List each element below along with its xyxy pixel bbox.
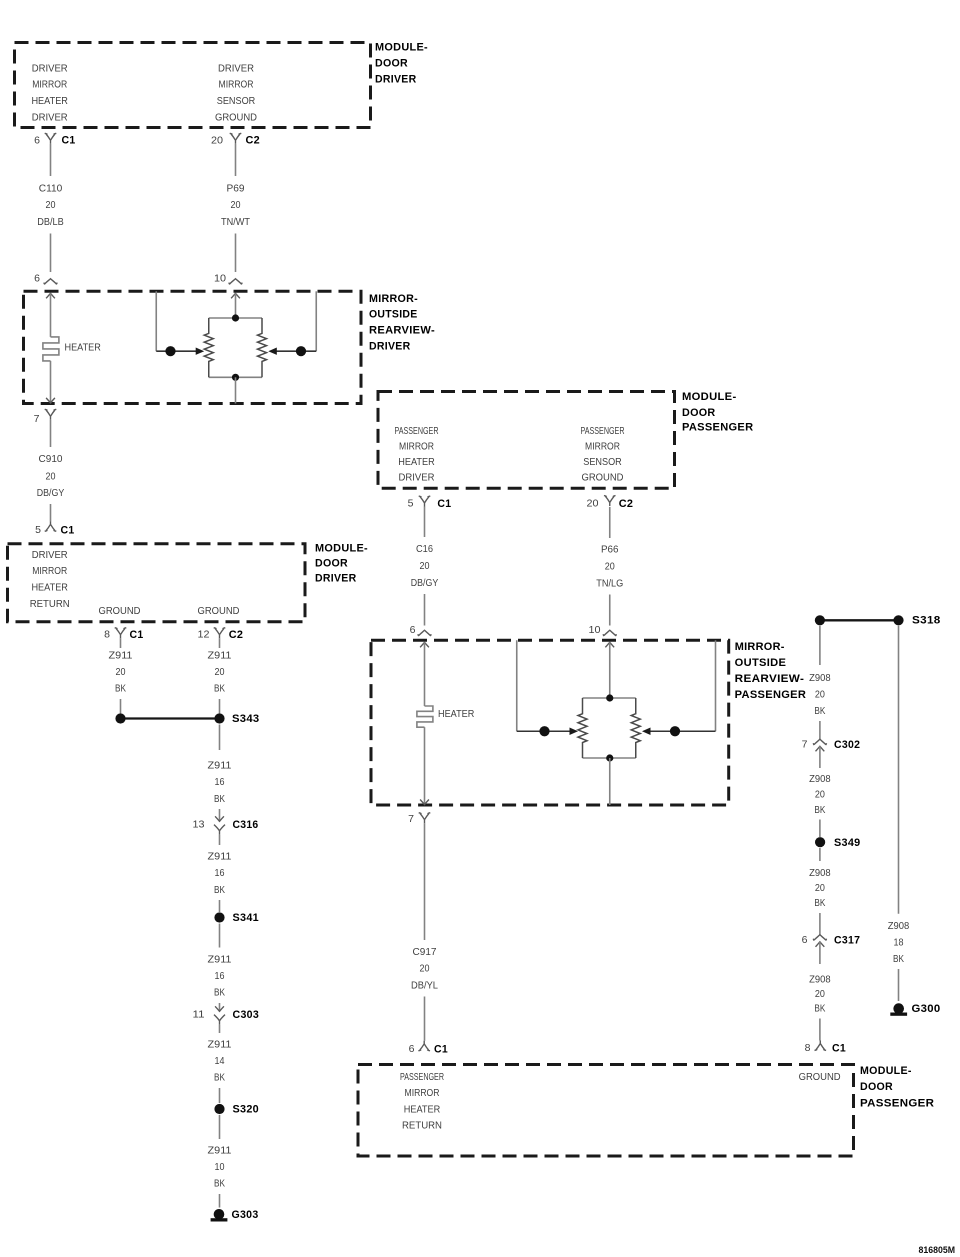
wire Z911 16b lower [219, 900, 221, 912]
wire Z908 1 lower [819, 721, 821, 739]
connector C2 (ground, driver) [214, 628, 226, 639]
svg-text:Z911: Z911 [208, 852, 232, 863]
wire Z911 (pin12) upper [219, 638, 221, 648]
wire P69 lower [235, 234, 237, 273]
svg-text:DOOR: DOOR [315, 558, 348, 570]
svg-text:16: 16 [215, 971, 225, 982]
svg-text:Z911: Z911 [208, 1040, 232, 1051]
svg-text:P66: P66 [601, 545, 619, 556]
svg-text:GROUND: GROUND [99, 606, 141, 617]
svg-text:GROUND: GROUND [582, 473, 624, 484]
connector half (mirror driver pin 10) [229, 279, 242, 285]
arrow into right resistor (passenger) [642, 728, 651, 735]
arrow into right resistor [268, 348, 277, 355]
svg-text:Z908: Z908 [888, 921, 910, 932]
splice S343 [121, 717, 220, 719]
svg-text:20: 20 [211, 135, 223, 147]
svg-text:C1: C1 [437, 498, 451, 510]
svg-text:REARVIEW-: REARVIEW- [369, 325, 435, 337]
svg-text:MIRROR: MIRROR [585, 442, 620, 453]
svg-text:C303: C303 [233, 1009, 260, 1021]
svg-text:C302: C302 [834, 739, 860, 751]
wire P66 upper [609, 507, 611, 538]
svg-text:10: 10 [214, 272, 226, 284]
wire C16 lower [424, 594, 426, 626]
svg-text:10: 10 [215, 1162, 225, 1173]
svg-text:C1: C1 [832, 1043, 846, 1055]
module-door-driver box (lower) [8, 544, 306, 622]
wire Z908 (left) 1 upper [819, 626, 821, 665]
ground G303 [211, 1209, 228, 1222]
svg-text:DOOR: DOOR [375, 58, 408, 70]
wire Z911 (pin8) lower [120, 699, 122, 713]
svg-text:REARVIEW-: REARVIEW- [735, 673, 805, 685]
svg-text:Z908: Z908 [809, 868, 831, 879]
svg-text:BK: BK [814, 706, 825, 717]
svg-text:Z911: Z911 [208, 1146, 232, 1157]
connector half (mirror driver pin 6) [44, 279, 57, 285]
svg-text:DB/GY: DB/GY [411, 578, 439, 589]
module-door-driver box (top) [15, 43, 371, 128]
svg-text:DB/LB: DB/LB [37, 217, 64, 228]
svg-text:C917: C917 [413, 947, 437, 958]
svg-text:20: 20 [815, 883, 825, 894]
svg-text:Z911: Z911 [208, 955, 232, 966]
svg-text:Z911: Z911 [208, 651, 232, 662]
svg-text:P69: P69 [227, 184, 245, 195]
svg-text:20: 20 [46, 471, 56, 482]
wire Z911 16b upper [219, 835, 221, 845]
node top (passenger network) [606, 694, 613, 701]
wire Z911 16 upper [219, 725, 221, 751]
wire Z911 16c lower [219, 1003, 221, 1011]
svg-text:PASSENGER: PASSENGER [581, 426, 625, 437]
wire Z911 16 lower [219, 809, 221, 821]
node bottom (driver network) [232, 374, 239, 381]
svg-text:DRIVER: DRIVER [32, 112, 68, 123]
wire sensor ground into network (passenger) [605, 642, 614, 647]
svg-text:8: 8 [104, 629, 110, 641]
svg-text:11: 11 [193, 1009, 205, 1021]
svg-text:816805M: 816805M [919, 1245, 956, 1255]
svg-text:DB/YL: DB/YL [411, 981, 438, 992]
svg-text:MIRROR-: MIRROR- [369, 293, 418, 305]
svg-text:SENSOR: SENSOR [217, 96, 256, 107]
svg-text:DRIVER: DRIVER [369, 341, 411, 353]
wire right wiper feed (passenger) [715, 640, 717, 731]
svg-text:C2: C2 [229, 629, 244, 641]
svg-text:TN/LG: TN/LG [596, 579, 623, 590]
wire right wiper feed (driver) [315, 291, 317, 351]
module-door-passenger box (upper) [378, 392, 675, 489]
wire left wiper feed (driver) [155, 291, 157, 351]
arrow into left resistor [196, 348, 205, 355]
svg-text:Z911: Z911 [208, 761, 232, 772]
svg-text:20: 20 [420, 964, 430, 975]
svg-text:C910: C910 [39, 454, 63, 465]
wire from heater to pin 7 [50, 361, 52, 403]
connector half (passenger mirror pin 10) [603, 630, 616, 636]
svg-text:C2: C2 [619, 498, 634, 510]
wire C110 lower [50, 234, 52, 273]
ground G300 [890, 1003, 907, 1016]
svg-text:C1: C1 [62, 135, 76, 147]
connector C1 (driver door module) [45, 133, 57, 144]
svg-text:13: 13 [193, 819, 205, 831]
connector C1 (driver door module return) [45, 521, 57, 531]
wire Z911 14 upper [219, 1025, 221, 1033]
junction dot right [296, 346, 306, 356]
svg-text:7: 7 [34, 413, 40, 425]
svg-text:MODULE-: MODULE- [315, 543, 368, 555]
svg-text:OUTSIDE: OUTSIDE [369, 308, 418, 320]
wire Z911 16c upper [219, 924, 221, 948]
svg-text:20: 20 [215, 667, 225, 678]
svg-text:MIRROR-: MIRROR- [735, 641, 785, 653]
svg-text:DRIVER: DRIVER [32, 63, 68, 74]
svg-text:C2: C2 [246, 135, 261, 147]
svg-text:6: 6 [409, 1043, 415, 1055]
svg-text:DOOR: DOOR [860, 1081, 893, 1093]
svg-text:MODULE-: MODULE- [860, 1065, 912, 1077]
wire Z911 (pin8) upper [120, 638, 122, 648]
connector C2 (passenger door module) [604, 496, 616, 507]
svg-text:14: 14 [215, 1056, 225, 1067]
connector half pin 7 (driver mirror) [45, 409, 57, 420]
svg-text:HEATER: HEATER [404, 1104, 441, 1115]
wire Z908 3 lower [819, 913, 821, 935]
svg-text:20: 20 [420, 561, 430, 572]
svg-text:MIRROR: MIRROR [32, 566, 67, 577]
wire Z908 2 upper [819, 746, 821, 768]
wire Z908 18 lower [898, 969, 900, 1001]
svg-text:DRIVER: DRIVER [399, 473, 435, 484]
svg-text:20: 20 [605, 562, 615, 573]
wire Z908 3 upper [819, 848, 821, 861]
wire network to box edge [235, 377, 237, 403]
svg-text:DRIVER: DRIVER [375, 74, 417, 86]
svg-text:Z911: Z911 [109, 651, 133, 662]
junction dot left [165, 346, 175, 356]
svg-text:DB/GY: DB/GY [37, 488, 65, 499]
svg-text:20: 20 [815, 790, 825, 801]
svg-text:PASSENGER: PASSENGER [860, 1097, 934, 1109]
svg-text:16: 16 [215, 777, 225, 788]
wire left wiper feed (passenger) [516, 640, 518, 731]
svg-text:TN/WT: TN/WT [221, 217, 250, 228]
svg-text:BK: BK [814, 898, 825, 909]
heater element (driver mirror) [43, 337, 59, 361]
svg-text:S341: S341 [233, 912, 260, 924]
svg-text:PASSENGER: PASSENGER [682, 422, 753, 434]
svg-text:HEATER: HEATER [398, 457, 435, 468]
svg-text:20: 20 [116, 667, 126, 678]
module-door-passenger box (bottom) [358, 1065, 854, 1157]
node bottom (passenger network) [606, 754, 613, 761]
svg-text:SENSOR: SENSOR [583, 457, 622, 468]
svg-text:S349: S349 [834, 837, 861, 849]
svg-text:16: 16 [215, 868, 225, 879]
junction dot left (passenger) [539, 726, 549, 736]
wire Z908 2 lower [819, 820, 821, 838]
wire Z908 18 long [898, 626, 900, 914]
svg-text:5: 5 [35, 524, 41, 536]
svg-text:6: 6 [34, 135, 40, 147]
svg-text:BK: BK [214, 1073, 225, 1084]
svg-text:Z908: Z908 [809, 774, 831, 785]
splice S320 [214, 1104, 224, 1114]
svg-text:BK: BK [214, 988, 225, 999]
wire to heater [50, 293, 52, 337]
heater element (passenger mirror) [417, 706, 433, 727]
svg-text:RETURN: RETURN [402, 1120, 442, 1131]
svg-text:C1: C1 [130, 629, 144, 641]
svg-text:MIRROR: MIRROR [219, 80, 254, 91]
connector half (passenger mirror pin 6) [418, 630, 431, 636]
svg-text:6: 6 [802, 934, 808, 946]
wire C917 upper [424, 823, 426, 940]
splice S349 [815, 837, 825, 847]
entry arrow pin 6 inside (passenger) [420, 642, 429, 647]
node top (driver network) [232, 314, 239, 321]
svg-text:BK: BK [115, 684, 126, 695]
connector half pin 7 (passenger mirror) [419, 813, 431, 824]
svg-text:DRIVER: DRIVER [218, 63, 254, 74]
wire P66 lower [609, 595, 611, 626]
svg-text:S320: S320 [233, 1104, 260, 1116]
svg-text:G300: G300 [912, 1003, 941, 1015]
resistor network (passenger mirror position sensors) [583, 698, 636, 758]
wire C910 lower [50, 504, 52, 521]
connector C2 (driver door module) [230, 133, 242, 144]
splice S341 [214, 912, 224, 922]
wire from heater to pin 7 (passenger) [424, 727, 426, 804]
wire Z908 4 upper [819, 942, 821, 964]
arrow into left resistor (passenger) [570, 728, 579, 735]
svg-text:PASSENGER: PASSENGER [735, 689, 807, 701]
svg-text:20: 20 [815, 989, 825, 1000]
connector C1 (passenger door module) [419, 496, 431, 507]
svg-text:C316: C316 [233, 819, 259, 831]
mirror-outside rearview driver box [24, 291, 362, 403]
in-line connector C303 [215, 1006, 224, 1011]
wire C110 upper [50, 144, 52, 176]
splice S318 [820, 619, 899, 621]
wire Z911 10 upper [219, 1115, 221, 1139]
wire Z911 10 lower [219, 1194, 221, 1208]
svg-text:C110: C110 [39, 184, 63, 195]
svg-text:6: 6 [34, 272, 40, 284]
svg-text:DOOR: DOOR [682, 407, 716, 419]
connector C1 (passenger heater return) [418, 1041, 430, 1051]
wire C16 upper [424, 507, 426, 538]
svg-text:RETURN: RETURN [30, 599, 70, 610]
entry arrow pin 6 inside [46, 293, 55, 298]
svg-text:GROUND: GROUND [215, 112, 257, 123]
svg-text:BK: BK [814, 1004, 825, 1015]
junction dot right (passenger) [670, 726, 680, 736]
svg-text:S318: S318 [912, 615, 941, 627]
svg-text:7: 7 [802, 738, 808, 750]
svg-text:7: 7 [408, 813, 414, 825]
wire Z908 4 lower [819, 1019, 821, 1041]
svg-text:20: 20 [815, 690, 825, 701]
in-line connector C316 [215, 816, 224, 821]
in-line connector C302 [813, 739, 826, 745]
wire Z911 (pin12) lower [219, 699, 221, 713]
connector C1 (passenger ground) [815, 1041, 827, 1051]
svg-text:BK: BK [214, 1179, 225, 1190]
svg-text:C317: C317 [834, 935, 860, 947]
wire to heater (passenger) [424, 642, 426, 706]
exit arrow pin 7 inside [46, 398, 55, 403]
svg-text:MODULE-: MODULE- [375, 42, 428, 54]
mirror-outside rearview passenger box [371, 640, 729, 805]
svg-text:GROUND: GROUND [799, 1072, 841, 1083]
wire sensor ground into network [231, 293, 240, 298]
svg-text:PASSENGER: PASSENGER [395, 426, 439, 437]
svg-text:12: 12 [198, 629, 210, 641]
wire P69 upper [235, 144, 237, 176]
svg-text:Z908: Z908 [809, 673, 831, 684]
svg-text:DRIVER: DRIVER [315, 573, 357, 585]
wire network to box edge (passenger) [609, 758, 611, 805]
svg-text:10: 10 [589, 624, 601, 636]
in-line connector C317 [813, 935, 826, 941]
svg-text:20: 20 [46, 200, 56, 211]
svg-text:MIRROR: MIRROR [32, 80, 67, 91]
resistor network (driver mirror position sensors) [209, 318, 262, 377]
svg-text:MIRROR: MIRROR [405, 1088, 440, 1099]
wire C917 lower [424, 997, 426, 1041]
svg-text:HEATER: HEATER [31, 583, 68, 594]
svg-text:MODULE-: MODULE- [682, 391, 737, 403]
svg-text:20: 20 [587, 498, 599, 510]
svg-text:Z908: Z908 [809, 975, 831, 986]
svg-text:BK: BK [214, 684, 225, 695]
svg-text:OUTSIDE: OUTSIDE [735, 657, 787, 669]
connector C1 (ground, driver) [115, 628, 127, 639]
wire C910 upper [50, 420, 52, 447]
svg-text:DRIVER: DRIVER [32, 550, 68, 561]
svg-text:HEATER: HEATER [31, 96, 68, 107]
svg-text:BK: BK [214, 794, 225, 805]
svg-text:MIRROR: MIRROR [399, 442, 434, 453]
svg-text:C1: C1 [434, 1044, 448, 1056]
svg-text:BK: BK [893, 954, 904, 965]
svg-text:BK: BK [814, 805, 825, 816]
svg-text:8: 8 [805, 1042, 811, 1054]
svg-text:HEATER: HEATER [65, 343, 101, 354]
svg-text:C16: C16 [416, 544, 433, 555]
svg-text:6: 6 [410, 624, 416, 636]
svg-text:GROUND: GROUND [198, 606, 240, 617]
svg-text:20: 20 [231, 200, 241, 211]
svg-text:PASSENGER: PASSENGER [400, 1072, 444, 1083]
svg-text:S343: S343 [232, 713, 260, 725]
wire Z911 14 lower [219, 1088, 221, 1103]
svg-text:BK: BK [214, 885, 225, 896]
svg-text:G303: G303 [232, 1209, 259, 1221]
svg-text:18: 18 [894, 938, 904, 949]
svg-text:HEATER: HEATER [438, 709, 474, 720]
svg-text:C1: C1 [61, 525, 75, 537]
svg-text:5: 5 [408, 498, 414, 510]
exit arrow pin 7 inside (passenger) [420, 800, 429, 805]
